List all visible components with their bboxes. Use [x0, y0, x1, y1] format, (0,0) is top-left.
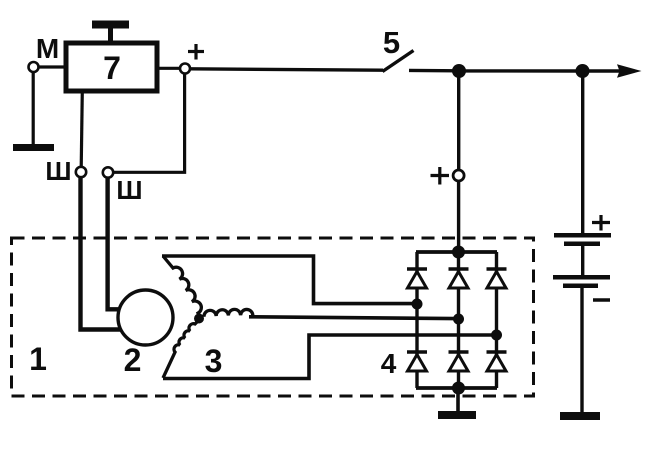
junction at switch output: [452, 64, 466, 78]
rectifier middle leg: [457, 252, 460, 388]
wire middle phase to rectifier: [249, 317, 455, 319]
wire bottom phase to rectifier: [163, 335, 494, 379]
star point of stator: [194, 314, 204, 324]
plus label at regulator output: [188, 44, 204, 60]
terminal plus of regulator: [180, 64, 190, 74]
plus label at battery: [592, 215, 610, 231]
wire plus terminal down to rectifier: [457, 181, 460, 254]
plus label at rectifier output: [431, 167, 450, 185]
chassis symbol above regulator: [92, 21, 129, 45]
wire rectifier to ground: [456, 388, 460, 412]
wire battery to ground: [580, 288, 583, 412]
wire Ш right down into generator: [108, 178, 121, 309]
wire to arrow: [582, 69, 624, 72]
wire junction to battery branch: [459, 69, 582, 72]
ground under М: [13, 144, 54, 151]
junction bottom rail: [452, 382, 465, 395]
diode upper middle: [449, 269, 469, 288]
diode upper right: [487, 269, 507, 288]
wire between cells: [581, 246, 584, 275]
battery long plate 1: [554, 233, 611, 238]
diode lower left: [407, 352, 427, 371]
stator winding middle phase: [204, 309, 253, 316]
svg-text:2: 2: [124, 342, 142, 378]
svg-text:М: М: [36, 33, 59, 64]
wire plus terminal to Ш right: [112, 73, 185, 172]
svg-text:5: 5: [383, 25, 400, 60]
terminal Ш right: [103, 167, 113, 177]
battery short plate 1: [564, 242, 600, 247]
svg-text:3: 3: [205, 343, 223, 379]
battery short plate 2: [563, 284, 598, 289]
terminal plus of rectifier: [453, 170, 464, 181]
junction right phase: [491, 330, 502, 341]
wire switch to junction: [409, 69, 459, 73]
ground under battery: [560, 412, 600, 420]
svg-text:Ш: Ш: [45, 156, 71, 186]
junction middle phase: [453, 314, 464, 325]
terminal М: [29, 62, 39, 72]
rotor 2: [118, 290, 173, 345]
wire М terminal to box: [37, 65, 66, 68]
wire plus terminal to switch: [189, 69, 383, 70]
battery long plate 2: [553, 275, 610, 280]
terminal Ш left: [76, 167, 86, 177]
ground under rectifier: [438, 411, 476, 419]
wire from box bottom to brush terminal: [81, 91, 82, 168]
regulator box 7: [66, 43, 157, 91]
rectifier bottom rail: [416, 386, 497, 390]
arrow head: [617, 64, 642, 77]
diode lower middle: [449, 352, 469, 371]
minus label at battery: [593, 298, 610, 301]
stator winding top phase: [163, 256, 201, 317]
svg-text:7: 7: [103, 50, 121, 86]
wire М terminal down to ground: [32, 71, 35, 145]
wire top phase to rectifier: [162, 256, 414, 304]
wire Ш left down into generator: [81, 178, 122, 330]
wire battery branch down: [581, 71, 584, 235]
stator winding bottom phase: [163, 320, 199, 378]
junction top rail: [452, 246, 465, 259]
junction left phase: [412, 299, 423, 310]
generator dashed box 1: [12, 238, 534, 396]
junction at battery branch: [576, 64, 590, 78]
diode upper left: [407, 269, 427, 288]
diode lower right: [487, 352, 507, 371]
rectifier left leg: [415, 252, 418, 388]
svg-text:Ш: Ш: [116, 175, 142, 205]
rectifier top rail: [416, 250, 497, 254]
wire box to plus terminal: [157, 67, 181, 70]
svg-text:1: 1: [29, 341, 47, 377]
rectifier right leg: [495, 252, 498, 388]
wire junction down to plus terminal: [457, 71, 460, 171]
switch 5 blade: [383, 51, 414, 72]
svg-text:4: 4: [381, 348, 397, 379]
